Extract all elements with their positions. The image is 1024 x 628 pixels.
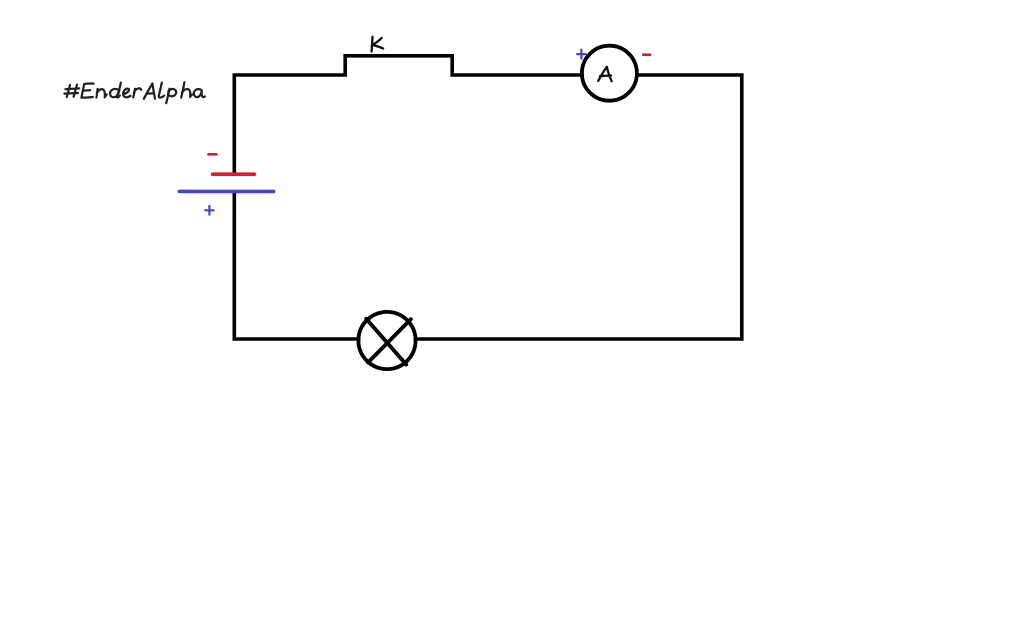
lamp L1 cross: [366, 319, 411, 365]
wire bottom-left from lamp to battery bottom: [234, 192, 360, 339]
ammeter plus label: [577, 50, 585, 59]
ammeter A1 letter A: [598, 67, 612, 81]
watermark text #EnderAlpha: [64, 82, 205, 103]
lamp L1 body: [358, 312, 415, 369]
battery plus label: [205, 206, 213, 215]
ammeter minus label: [643, 53, 650, 56]
wire top-left segment with switch step: [234, 56, 584, 173]
battery B1 positive plate (long blue): [179, 190, 273, 194]
battery minus label: [208, 153, 216, 156]
battery B1 negative plate (short red): [213, 172, 255, 176]
ammeter A1 body: [582, 46, 637, 101]
wire from ammeter to right side down to bottom-right corner: [414, 75, 742, 339]
switch K label: [372, 37, 384, 52]
